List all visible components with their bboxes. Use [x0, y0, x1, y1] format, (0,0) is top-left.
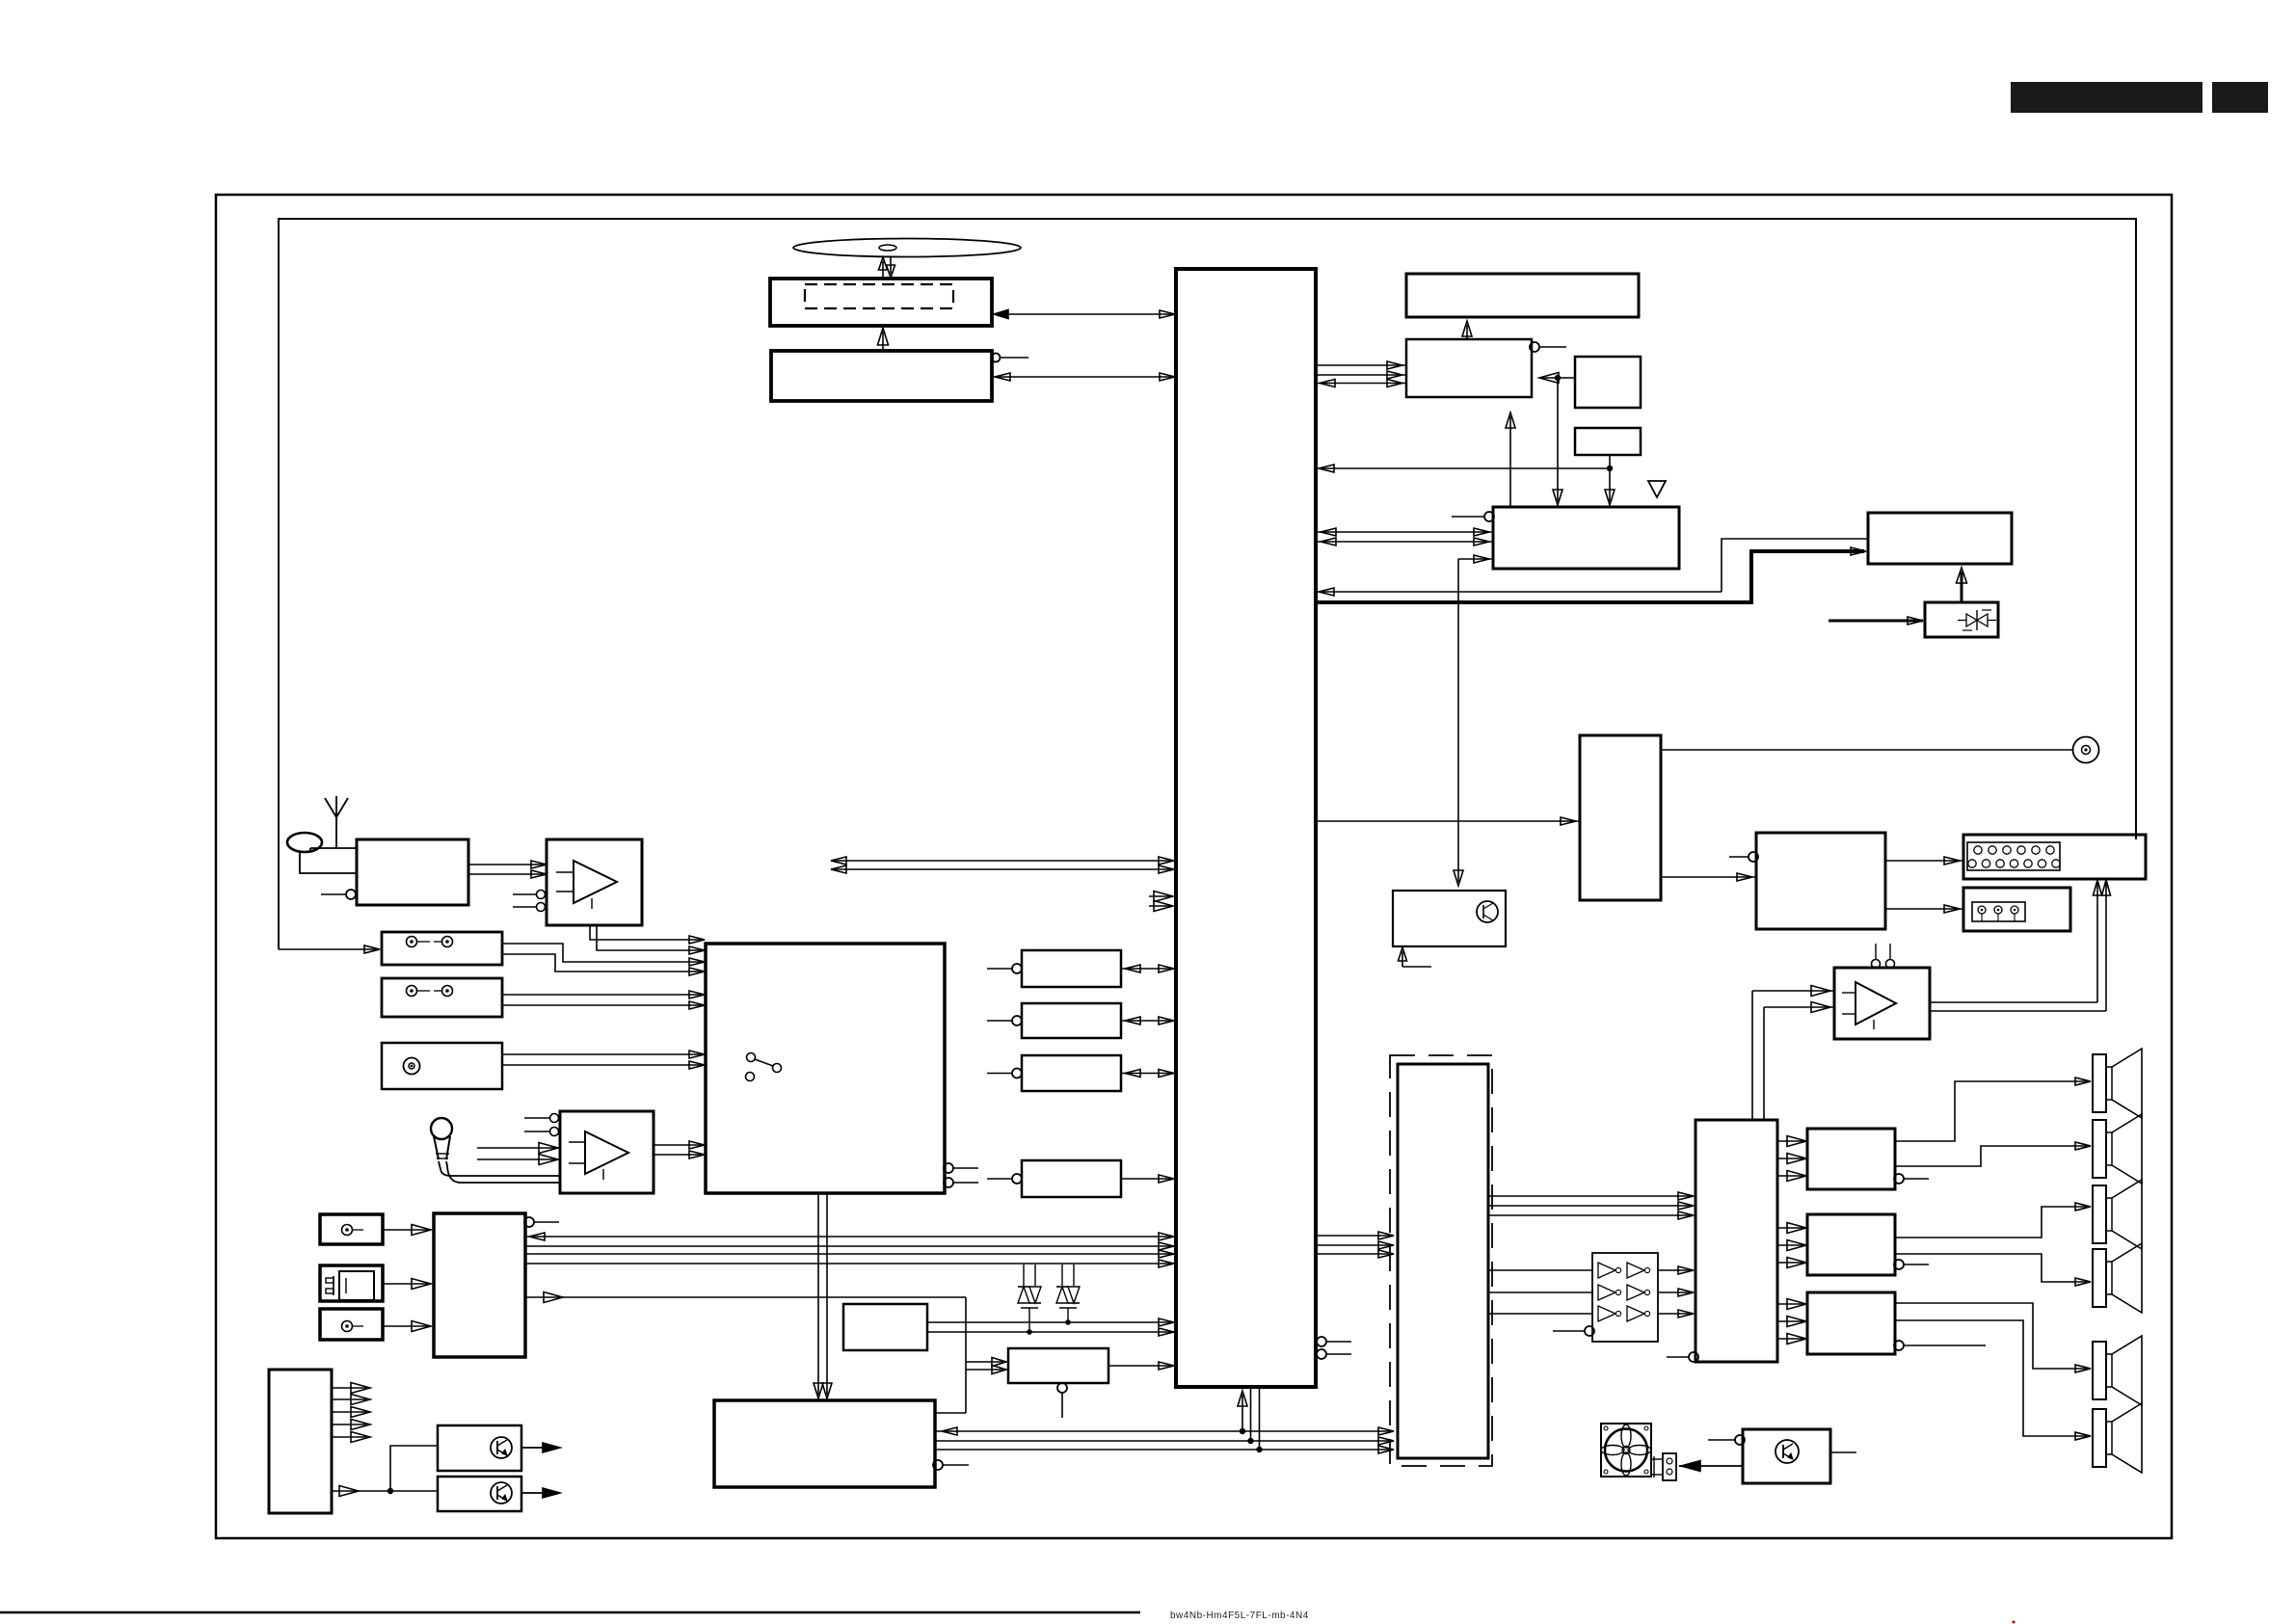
svg-text:bw4Nb-Hm4F5L-7FL-mb-4N4: bw4Nb-Hm4F5L-7FL-mb-4N4 — [1170, 1611, 1309, 1621]
